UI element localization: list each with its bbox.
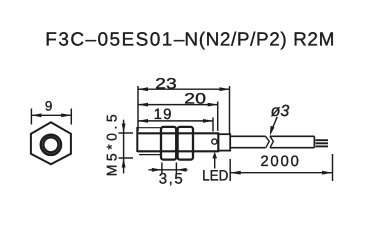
- dimension 23 line: [138, 88, 230, 90]
- svg-text:F3C–05ES01–: F3C–05ES01–: [45, 29, 185, 50]
- dimension 19 arrow left: [138, 119, 149, 123]
- wire 3: [316, 145, 328, 147]
- dimension 3,5 extension line left: [161, 163, 163, 174]
- dimension 9 line: [31, 114, 71, 116]
- cable top line (before break): [230, 135, 265, 137]
- right extension line of 20: [217, 102, 219, 132]
- svg-text:9: 9: [45, 99, 53, 114]
- dimension 23 arrow right: [220, 87, 231, 91]
- svg-text:23: 23: [155, 75, 177, 92]
- thread crest line top: [137, 127, 160, 129]
- dimension 9 arrow right: [61, 113, 71, 117]
- cable bottom line (after break): [270, 147, 315, 149]
- wire 1: [316, 139, 328, 141]
- right extension line of 19: [212, 118, 214, 132]
- nut 1 (side view): [161, 127, 176, 160]
- nut outer circle: [41, 135, 61, 155]
- dimension 19 line: [138, 120, 213, 122]
- M5*0.5 arrow top (pointing down): [122, 124, 126, 134]
- diameter 3 leader line: [272, 117, 278, 131]
- dimension 2000 arrow right: [322, 171, 333, 175]
- dimension 3,5 arrow right (outside pointing left): [176, 168, 186, 172]
- svg-text:19: 19: [154, 106, 173, 123]
- nut 2 (side view): [178, 127, 193, 160]
- dimension 20 arrow right: [208, 103, 219, 107]
- wire 2: [316, 142, 328, 144]
- M5*0.5 tick top: [119, 132, 134, 134]
- dimension 9 extension line left: [30, 109, 32, 125]
- dimension 9 extension line right: [70, 109, 72, 125]
- dimension 3,5 extension line right: [175, 163, 177, 174]
- dimension 2000 extension line right: [332, 154, 334, 181]
- M5*0.5 tick bottom: [119, 157, 134, 159]
- dimension 23 arrow left: [138, 87, 149, 91]
- body bottom line: [137, 150, 218, 152]
- dimension 19 arrow right: [203, 119, 214, 123]
- dimension 9 arrow left: [31, 113, 41, 117]
- dimension 3,5 arrow left (outside pointing right): [152, 168, 162, 172]
- nut inner circle (thread): [43, 137, 58, 152]
- svg-text:ø3: ø3: [271, 103, 290, 120]
- cable break chevron left: [266, 136, 270, 147]
- left extension line of 23/20/19: [137, 86, 139, 131]
- sensor barrel face (left edge): [136, 127, 138, 152]
- dimension 2000 arrow left: [230, 171, 241, 175]
- dimension 3,5 line: [149, 169, 188, 171]
- svg-text:20: 20: [184, 90, 206, 107]
- LED indicator circle: [212, 139, 217, 144]
- cable bottom line (before break): [230, 147, 265, 149]
- right extension line of 23: [229, 86, 231, 134]
- dimension 20 arrow left: [138, 103, 149, 107]
- svg-text:2000: 2000: [260, 153, 300, 170]
- body top line: [137, 132, 218, 134]
- cable top line (after break): [270, 135, 315, 137]
- diameter 3 leader arrow: [270, 126, 275, 136]
- LED leader line: [214, 155, 216, 169]
- svg-text:3,5: 3,5: [159, 170, 185, 187]
- hex nut front view: [31, 122, 71, 164]
- LED leader arrow (pointing up): [212, 152, 217, 159]
- svg-text:LED: LED: [202, 167, 228, 184]
- M5*0.5 dimension vertical line: [123, 120, 125, 174]
- cable bushing: [218, 134, 230, 150]
- thread crest line bottom: [139, 154, 161, 156]
- svg-text:M5*0.5: M5*0.5: [103, 114, 119, 176]
- cable break chevron right: [270, 136, 274, 147]
- svg-text:N(N2/P/P2) R2M: N(N2/P/P2) R2M: [184, 29, 334, 50]
- M5*0.5 arrow bottom (pointing up): [122, 158, 126, 168]
- dimension 20 line: [138, 104, 218, 106]
- body right edge: [217, 132, 219, 152]
- dimension 2000 extension line left: [229, 159, 231, 181]
- dimension 2000 line: [230, 172, 332, 174]
- cable end: [313, 136, 315, 147]
